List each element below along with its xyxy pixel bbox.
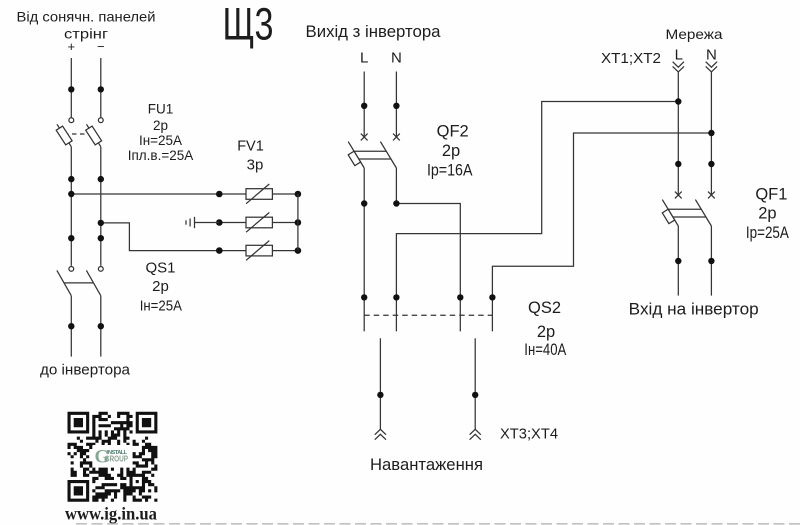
junction QF1 pole1 out (675, 258, 681, 264)
circuit breaker QF2 pole 2 (380, 134, 399, 168)
svg-text:2р: 2р (152, 278, 169, 295)
svg-text:L: L (675, 46, 683, 63)
svg-text:QF1: QF1 (755, 185, 787, 203)
junction QS1 out pole2 (98, 323, 104, 329)
svg-text:Іпл.в.=25А: Іпл.в.=25А (128, 148, 194, 163)
terminal XT2 (706, 62, 717, 72)
svg-text:2р: 2р (442, 142, 460, 160)
QF1 linkage bars (668, 209, 706, 217)
svg-text:+: + (68, 39, 76, 54)
svg-text:Вхід на інвертор: Вхід на інвертор (629, 301, 759, 319)
junction PV+ varistor tap (68, 191, 74, 197)
wire PV+ drop to FU1 (70, 58, 72, 118)
svg-text:Навантаження: Навантаження (370, 455, 483, 474)
svg-text:www.ig.in.ua: www.ig.in.ua (65, 503, 157, 523)
wire branch PV- to varistor row 3 (101, 223, 220, 251)
svg-text:FV1: FV1 (237, 139, 264, 155)
junction QS2 pole3 in (457, 294, 463, 300)
wire QF1 pole1 to inverter input (677, 226, 679, 296)
svg-text:L: L (360, 50, 368, 67)
svg-text:Мережа: Мережа (666, 26, 723, 42)
svg-text:2р: 2р (153, 118, 168, 133)
QF2 linkage bars (354, 151, 391, 159)
junction inverter N (393, 103, 399, 109)
svg-text:Ін=25А: Ін=25А (140, 298, 182, 315)
junction QF2 pole2 out (393, 200, 399, 206)
junction load L (377, 392, 383, 398)
junction QS1 out pole1 (68, 323, 74, 329)
junction QS2 pole4 in (489, 294, 495, 300)
svg-text:Ін=40А: Ін=40А (524, 341, 566, 359)
wire inverter L to QF2 (363, 72, 365, 138)
svg-text:QS2: QS2 (528, 299, 561, 317)
disconnector QS1 pole 1 (57, 267, 74, 296)
junction QS2 pole1 in (361, 294, 367, 300)
fuse-switch FU1 pole 1 (56, 118, 74, 147)
changeover switch QS2 linkage (dashed) (364, 314, 492, 316)
junction QS2 pole2 in (393, 294, 399, 300)
wire FU1 pole1 to QS1 (70, 147, 72, 266)
svg-text:до інвертора: до інвертора (40, 362, 131, 379)
junction PV- below FU1 (98, 176, 104, 182)
QR code www.ig.in.ua (68, 412, 158, 502)
svg-text:Вихід з інвертора: Вихід з інвертора (306, 23, 442, 41)
svg-text:Ін=25А: Ін=25А (139, 133, 182, 148)
svg-text:Ір=25А: Ір=25А (746, 224, 789, 242)
svg-text:Щ3: Щ3 (223, 0, 274, 49)
junction inverter L (361, 103, 367, 109)
junction grid N above QF1 (708, 161, 714, 167)
ground (186, 217, 219, 228)
svg-text:Від сонячн. панелей: Від сонячн. панелей (17, 9, 156, 25)
disconnector QS1 pole 2 (86, 267, 103, 296)
wire QF1 pole2 to inverter input (710, 226, 712, 296)
junction load N (472, 392, 478, 398)
svg-text:3р: 3р (247, 157, 264, 174)
wire inverter N to QF2 (395, 72, 397, 138)
fuse-switch FU1 pole 2 (86, 118, 104, 147)
wire grid N to QF1 (710, 72, 712, 195)
junction PV- varistor tap (98, 220, 104, 226)
terminal XT4 (470, 429, 481, 439)
wire QS1 pole1 to inverter (70, 296, 72, 357)
wire branch PV+ to varistor row 1 (71, 193, 219, 195)
junction grid L above QF1 (675, 161, 681, 167)
svg-text:XT3;XT4: XT3;XT4 (500, 427, 558, 443)
wire grid N feed to QS2 pole4 (492, 133, 711, 331)
varistor FV1 pole 1 (216, 184, 301, 204)
wire QS1 pole2 to inverter (100, 296, 102, 357)
junction PV+ above QS1 (68, 235, 74, 241)
terminal XT1 (673, 62, 684, 72)
wire PV- drop to FU1 (100, 58, 102, 118)
wire QF2 pole1 to QS2 pole1 (363, 168, 365, 331)
junction PV+ upper (68, 86, 74, 92)
wire grid L feed to QS2 pole2 (396, 102, 678, 332)
wire QS2 output L to load (379, 338, 381, 429)
svg-text:Ір=16А: Ір=16А (427, 161, 473, 179)
QR center logo Install Group (93, 445, 131, 468)
junction PV- above QS1 (98, 235, 104, 241)
QS1 linkage bar (65, 282, 94, 284)
varistor FV1 pole 3 (216, 241, 301, 261)
svg-text:GROUP: GROUP (105, 454, 129, 464)
circuit breaker QF1 pole 2 (695, 192, 714, 226)
wire QF2 pole2 jog to QS2 pole3 (396, 204, 460, 332)
svg-text:2р: 2р (537, 323, 555, 341)
svg-text:N: N (391, 50, 402, 67)
svg-text:−: − (97, 39, 105, 54)
fuse-switch FU1 linkage (dashed) (64, 133, 93, 135)
wire FU1 pole2 to QS1 (100, 147, 102, 266)
varistor FV1 pole 2 (216, 213, 301, 233)
svg-text:XT1;XT2: XT1;XT2 (601, 51, 661, 67)
svg-text:N: N (706, 46, 717, 63)
svg-text:QF2: QF2 (437, 123, 469, 141)
wire QF2 pole2 down (395, 168, 397, 204)
circuit breaker QF2 pole 1 (348, 134, 367, 168)
terminal XT3 (375, 429, 386, 439)
svg-text:FU1: FU1 (148, 102, 174, 117)
junction PV+ below FU1 (68, 176, 74, 182)
wire grid L to QF1 (677, 72, 679, 195)
wire QS2 output N to load (474, 338, 476, 429)
junction grid L branch (675, 98, 681, 104)
circuit breaker QF1 pole 1 (662, 192, 681, 226)
junction PV- upper (98, 86, 104, 92)
wire FV1 right bus (297, 194, 299, 251)
svg-text:2р: 2р (758, 205, 776, 223)
junction QF1 pole2 out (708, 258, 714, 264)
junction QF2 pole1 out (361, 200, 367, 206)
bottom trim dashed line (76, 523, 800, 525)
svg-text:QS1: QS1 (145, 260, 175, 277)
junction grid N branch (708, 130, 714, 136)
